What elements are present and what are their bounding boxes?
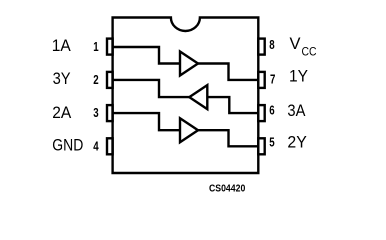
- svg-text:3Y: 3Y: [53, 69, 71, 88]
- buffer G2 (2A to 2Y): [180, 118, 198, 142]
- svg-text:1: 1: [93, 39, 98, 54]
- pin 1 box: [107, 39, 113, 55]
- svg-text:CC: CC: [302, 44, 317, 58]
- svg-text:4: 4: [93, 138, 99, 153]
- IC package body U1 (8-pin DIP outline with index notch): [113, 18, 259, 174]
- pin 5 box: [258, 138, 264, 154]
- pin 2 box: [107, 72, 113, 88]
- wire pin6 to G3 input: [207, 97, 258, 113]
- wire pin1 to buffer G1 input: [113, 47, 180, 64]
- svg-text:5: 5: [269, 135, 274, 150]
- svg-text:7: 7: [270, 72, 275, 87]
- wire G3 output to pin2: [113, 80, 190, 97]
- pin 6 box: [258, 105, 264, 121]
- svg-text:1A: 1A: [52, 36, 72, 55]
- svg-text:6: 6: [269, 103, 274, 118]
- pin 3 box: [107, 105, 113, 121]
- wire G2 output to pin5: [198, 130, 258, 146]
- pin 4 box: [107, 138, 113, 154]
- buffer G3 (3A to 3Y, points left): [189, 85, 207, 109]
- svg-text:8: 8: [269, 37, 274, 52]
- wire pin3 to buffer G2 input: [113, 113, 180, 130]
- svg-text:1Y: 1Y: [289, 66, 308, 85]
- svg-text:2: 2: [93, 72, 98, 87]
- svg-text:CS04420: CS04420: [209, 184, 246, 195]
- svg-text:2A: 2A: [52, 103, 72, 122]
- buffer G1 (1A to 1Y): [180, 52, 198, 76]
- wire G1 output to pin7: [198, 64, 258, 80]
- svg-text:GND: GND: [52, 136, 83, 155]
- svg-text:2Y: 2Y: [287, 133, 306, 152]
- svg-text:3A: 3A: [287, 101, 306, 120]
- pin 8 box: [258, 39, 264, 55]
- svg-text:3: 3: [93, 105, 98, 120]
- pin 7 box: [258, 72, 264, 88]
- svg-text:V: V: [290, 34, 302, 53]
